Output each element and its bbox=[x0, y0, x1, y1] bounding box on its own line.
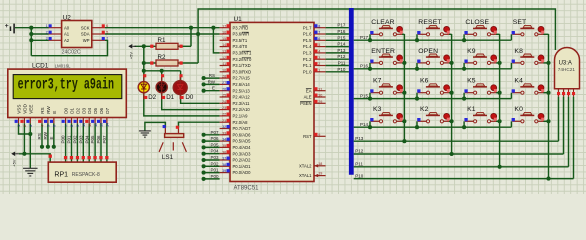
svg-text:P11: P11 bbox=[355, 162, 363, 167]
svg-text:D2: D2 bbox=[148, 94, 156, 101]
svg-text:XTAL1: XTAL1 bbox=[299, 173, 312, 178]
svg-text:13: 13 bbox=[99, 123, 104, 127]
svg-text:P07: P07 bbox=[102, 135, 107, 144]
svg-text:P3.0/RXD: P3.0/RXD bbox=[233, 69, 252, 74]
svg-text:+5V: +5V bbox=[129, 52, 134, 59]
svg-text:P1.7: P1.7 bbox=[303, 25, 312, 30]
svg-text:11: 11 bbox=[222, 62, 226, 66]
svg-text:K7: K7 bbox=[373, 78, 382, 85]
svg-text:7: 7 bbox=[318, 31, 320, 35]
svg-text:38: 38 bbox=[222, 163, 226, 167]
svg-text:LCD1: LCD1 bbox=[32, 62, 49, 69]
svg-text:P3.1/TXD: P3.1/TXD bbox=[233, 63, 251, 68]
svg-text:P00: P00 bbox=[210, 174, 219, 179]
svg-text:error3,try a9ain: error3,try a9ain bbox=[18, 76, 115, 94]
svg-text:SDA: SDA bbox=[81, 32, 90, 37]
svg-text:P0.5/AD5: P0.5/AD5 bbox=[233, 139, 252, 144]
svg-text:P3.4/T0: P3.4/T0 bbox=[233, 44, 248, 49]
svg-text:P02: P02 bbox=[210, 161, 219, 166]
svg-text:23: 23 bbox=[222, 106, 226, 110]
svg-text:P0.3/AD3: P0.3/AD3 bbox=[233, 151, 252, 156]
svg-text:P15: P15 bbox=[337, 35, 346, 40]
svg-text:K5: K5 bbox=[467, 78, 476, 85]
svg-text:K1: K1 bbox=[467, 106, 476, 113]
svg-text:15: 15 bbox=[222, 37, 226, 41]
svg-text:P05: P05 bbox=[210, 142, 219, 147]
svg-text:9: 9 bbox=[75, 125, 80, 127]
svg-text:VEE: VEE bbox=[28, 105, 33, 114]
svg-text:37: 37 bbox=[222, 157, 226, 161]
svg-text:P2.4/A12: P2.4/A12 bbox=[233, 95, 251, 100]
svg-text:P00: P00 bbox=[61, 135, 66, 144]
svg-text:RESPACK-8: RESPACK-8 bbox=[72, 172, 100, 178]
svg-text:K6: K6 bbox=[420, 78, 429, 85]
svg-text:12: 12 bbox=[222, 56, 226, 60]
svg-text:3: 3 bbox=[318, 56, 320, 60]
svg-text:PSEN: PSEN bbox=[300, 101, 311, 106]
svg-text:3: 3 bbox=[46, 37, 48, 41]
svg-text:P1.2: P1.2 bbox=[303, 57, 312, 62]
svg-text:29: 29 bbox=[318, 100, 322, 104]
svg-text:P0.6/AD6: P0.6/AD6 bbox=[233, 132, 252, 137]
svg-text:P2.7/A15: P2.7/A15 bbox=[233, 76, 251, 81]
svg-text:P12: P12 bbox=[355, 149, 364, 154]
svg-text:36: 36 bbox=[222, 150, 226, 154]
svg-text:8: 8 bbox=[69, 125, 74, 127]
svg-text:P16: P16 bbox=[337, 29, 346, 34]
svg-text:K2: K2 bbox=[420, 106, 429, 113]
svg-text:22: 22 bbox=[222, 113, 226, 117]
svg-text:P1.1: P1.1 bbox=[303, 63, 312, 68]
svg-text:OPEN: OPEN bbox=[418, 48, 438, 55]
svg-text:17: 17 bbox=[222, 24, 226, 28]
svg-text:LM016L: LM016L bbox=[55, 64, 71, 69]
svg-text:R1: R1 bbox=[158, 37, 166, 44]
svg-text:P0.1/AD1: P0.1/AD1 bbox=[233, 164, 252, 169]
svg-text:P04: P04 bbox=[210, 149, 219, 154]
svg-text:1: 1 bbox=[318, 68, 320, 72]
svg-text:VDD: VDD bbox=[22, 103, 27, 113]
svg-text:ENTER: ENTER bbox=[371, 48, 395, 55]
svg-text:E: E bbox=[212, 86, 215, 91]
svg-text:33: 33 bbox=[222, 131, 226, 135]
svg-text:SET: SET bbox=[513, 19, 527, 26]
svg-text:E: E bbox=[52, 111, 57, 114]
svg-text:5: 5 bbox=[46, 125, 51, 127]
svg-text:RS: RS bbox=[37, 133, 42, 139]
svg-text:U2: U2 bbox=[63, 15, 72, 22]
svg-text:+5V: +5V bbox=[12, 159, 17, 166]
svg-text:12: 12 bbox=[93, 123, 98, 127]
svg-text:P0.4/AD4: P0.4/AD4 bbox=[233, 145, 252, 150]
svg-text:D0: D0 bbox=[185, 94, 193, 101]
svg-text:74HC21: 74HC21 bbox=[558, 67, 576, 72]
svg-text:RW: RW bbox=[43, 131, 48, 139]
svg-text:4: 4 bbox=[318, 50, 320, 54]
svg-text:P03: P03 bbox=[78, 135, 83, 144]
svg-text:24C02C: 24C02C bbox=[62, 49, 81, 55]
svg-text:K9: K9 bbox=[467, 48, 476, 55]
svg-text:P2.5/A13: P2.5/A13 bbox=[233, 88, 251, 93]
svg-text:2: 2 bbox=[318, 62, 320, 66]
svg-text:RW: RW bbox=[208, 79, 216, 84]
svg-text:5: 5 bbox=[318, 43, 320, 47]
svg-text:16: 16 bbox=[222, 31, 226, 35]
svg-text:D1: D1 bbox=[166, 94, 174, 101]
svg-text:P2.3/A11: P2.3/A11 bbox=[233, 101, 251, 106]
svg-text:P02: P02 bbox=[73, 135, 78, 144]
svg-text:P0.7/AD7: P0.7/AD7 bbox=[233, 126, 252, 131]
svg-text:26: 26 bbox=[222, 87, 226, 91]
svg-text:P04: P04 bbox=[84, 135, 89, 144]
svg-text:7: 7 bbox=[106, 37, 108, 41]
svg-text:P14: P14 bbox=[360, 122, 369, 127]
svg-text:11: 11 bbox=[87, 123, 92, 127]
svg-text:D5: D5 bbox=[93, 107, 98, 113]
svg-text:7: 7 bbox=[63, 125, 68, 127]
svg-text:P16: P16 bbox=[360, 64, 369, 69]
svg-text:WP: WP bbox=[83, 38, 90, 43]
svg-text:21: 21 bbox=[222, 119, 226, 123]
svg-text:K8: K8 bbox=[514, 48, 523, 55]
svg-text:P03: P03 bbox=[210, 155, 219, 160]
svg-text:P1.0: P1.0 bbox=[303, 69, 312, 74]
svg-text:P14: P14 bbox=[337, 42, 346, 47]
svg-text:8: 8 bbox=[318, 24, 320, 28]
svg-text:AT89C51: AT89C51 bbox=[234, 186, 260, 192]
svg-text:32: 32 bbox=[222, 125, 226, 129]
svg-text:P13: P13 bbox=[337, 48, 346, 53]
svg-text:K0: K0 bbox=[514, 106, 523, 113]
svg-text:P0.0/AD0: P0.0/AD0 bbox=[233, 170, 252, 175]
svg-text:P06: P06 bbox=[96, 135, 101, 144]
svg-text:28: 28 bbox=[222, 75, 226, 79]
svg-text:24: 24 bbox=[222, 100, 226, 104]
svg-text:35: 35 bbox=[222, 144, 226, 148]
svg-text:CLOSE: CLOSE bbox=[465, 19, 489, 26]
svg-text:P2.2/A10: P2.2/A10 bbox=[233, 107, 251, 112]
svg-text:D7: D7 bbox=[105, 107, 110, 113]
svg-text:E: E bbox=[49, 136, 54, 139]
svg-text:39: 39 bbox=[222, 169, 226, 173]
svg-text:D2: D2 bbox=[75, 107, 80, 113]
svg-text:25: 25 bbox=[222, 94, 226, 98]
svg-text:ALE: ALE bbox=[304, 95, 312, 100]
svg-text:3: 3 bbox=[28, 125, 33, 127]
svg-text:1: 1 bbox=[46, 24, 48, 28]
svg-text:A0: A0 bbox=[64, 25, 70, 30]
svg-text:27: 27 bbox=[222, 81, 226, 85]
svg-text:P2.1/A9: P2.1/A9 bbox=[233, 114, 249, 119]
svg-text:P0.2/AD2: P0.2/AD2 bbox=[233, 158, 252, 163]
svg-text:P07: P07 bbox=[210, 130, 219, 135]
svg-text:A2: A2 bbox=[64, 38, 70, 43]
svg-text:P2.0/A8: P2.0/A8 bbox=[233, 120, 249, 125]
svg-text:1: 1 bbox=[16, 125, 21, 127]
svg-text:P1.6: P1.6 bbox=[303, 32, 312, 37]
svg-text:P01: P01 bbox=[210, 168, 219, 173]
svg-text:14: 14 bbox=[222, 43, 226, 47]
svg-text:9: 9 bbox=[318, 133, 320, 137]
svg-text:31: 31 bbox=[318, 87, 322, 91]
svg-text:U3:A: U3:A bbox=[559, 61, 572, 67]
svg-text:RESET: RESET bbox=[418, 19, 441, 26]
svg-text:P15: P15 bbox=[360, 93, 369, 98]
svg-text:P01: P01 bbox=[67, 135, 72, 144]
svg-text:K4: K4 bbox=[514, 78, 523, 85]
svg-text:P13: P13 bbox=[355, 136, 364, 141]
svg-text:RS: RS bbox=[40, 107, 45, 113]
svg-text:P17: P17 bbox=[337, 23, 346, 28]
svg-text:P11: P11 bbox=[338, 61, 346, 66]
svg-text:RP1: RP1 bbox=[54, 172, 68, 179]
svg-text:P17: P17 bbox=[360, 35, 369, 40]
svg-text:P3.5/T1: P3.5/T1 bbox=[233, 38, 248, 43]
svg-text:U1: U1 bbox=[234, 16, 243, 23]
svg-text:P05: P05 bbox=[90, 135, 95, 144]
svg-text:5: 5 bbox=[106, 30, 108, 34]
svg-text:LS1: LS1 bbox=[162, 154, 174, 161]
svg-text:CLEAR: CLEAR bbox=[371, 19, 394, 26]
svg-text:D6: D6 bbox=[99, 107, 104, 113]
svg-text:P06: P06 bbox=[210, 136, 219, 141]
svg-text:30: 30 bbox=[318, 94, 322, 98]
svg-text:D4: D4 bbox=[87, 107, 92, 113]
svg-text:2: 2 bbox=[22, 125, 27, 127]
svg-text:P10: P10 bbox=[337, 67, 346, 72]
svg-text:RW: RW bbox=[46, 106, 51, 114]
svg-text:P1.3: P1.3 bbox=[303, 51, 312, 56]
svg-text:RST: RST bbox=[303, 134, 312, 139]
svg-text:A1: A1 bbox=[64, 32, 70, 37]
svg-text:2: 2 bbox=[46, 30, 48, 34]
svg-text:10: 10 bbox=[222, 68, 226, 72]
svg-text:D1: D1 bbox=[70, 107, 75, 113]
svg-text:EA: EA bbox=[306, 88, 312, 93]
svg-text:K3: K3 bbox=[373, 106, 382, 113]
svg-text:13: 13 bbox=[222, 50, 226, 54]
svg-text:6: 6 bbox=[52, 125, 57, 127]
svg-text:P1.5: P1.5 bbox=[303, 38, 312, 43]
svg-text:D0: D0 bbox=[64, 107, 69, 113]
svg-text:SCK: SCK bbox=[81, 25, 90, 30]
svg-text:18: 18 bbox=[318, 162, 322, 166]
svg-text:VSS: VSS bbox=[17, 105, 22, 114]
svg-text:R2: R2 bbox=[158, 54, 166, 61]
svg-text:34: 34 bbox=[222, 138, 226, 142]
svg-text:P2.6/A14: P2.6/A14 bbox=[233, 82, 251, 87]
svg-text:XTAL2: XTAL2 bbox=[299, 163, 312, 168]
svg-text:RS: RS bbox=[209, 73, 215, 78]
svg-text:6: 6 bbox=[106, 24, 108, 28]
svg-text:D3: D3 bbox=[81, 107, 86, 113]
svg-text:P1.4: P1.4 bbox=[303, 44, 312, 49]
svg-text:19: 19 bbox=[318, 172, 322, 176]
svg-text:6: 6 bbox=[318, 37, 320, 41]
svg-text:P12: P12 bbox=[337, 54, 346, 59]
svg-text:P10: P10 bbox=[355, 173, 364, 178]
